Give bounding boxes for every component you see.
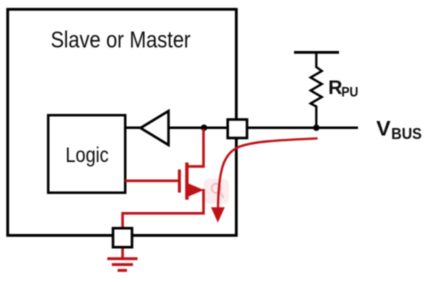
svg-text:V: V — [376, 117, 391, 141]
svg-text:Logic: Logic — [66, 143, 109, 167]
svg-text:Slave or Master: Slave or Master — [51, 27, 191, 53]
svg-text:PU: PU — [341, 84, 358, 99]
svg-text:R: R — [328, 77, 342, 99]
svg-text:BUS: BUS — [391, 126, 422, 143]
